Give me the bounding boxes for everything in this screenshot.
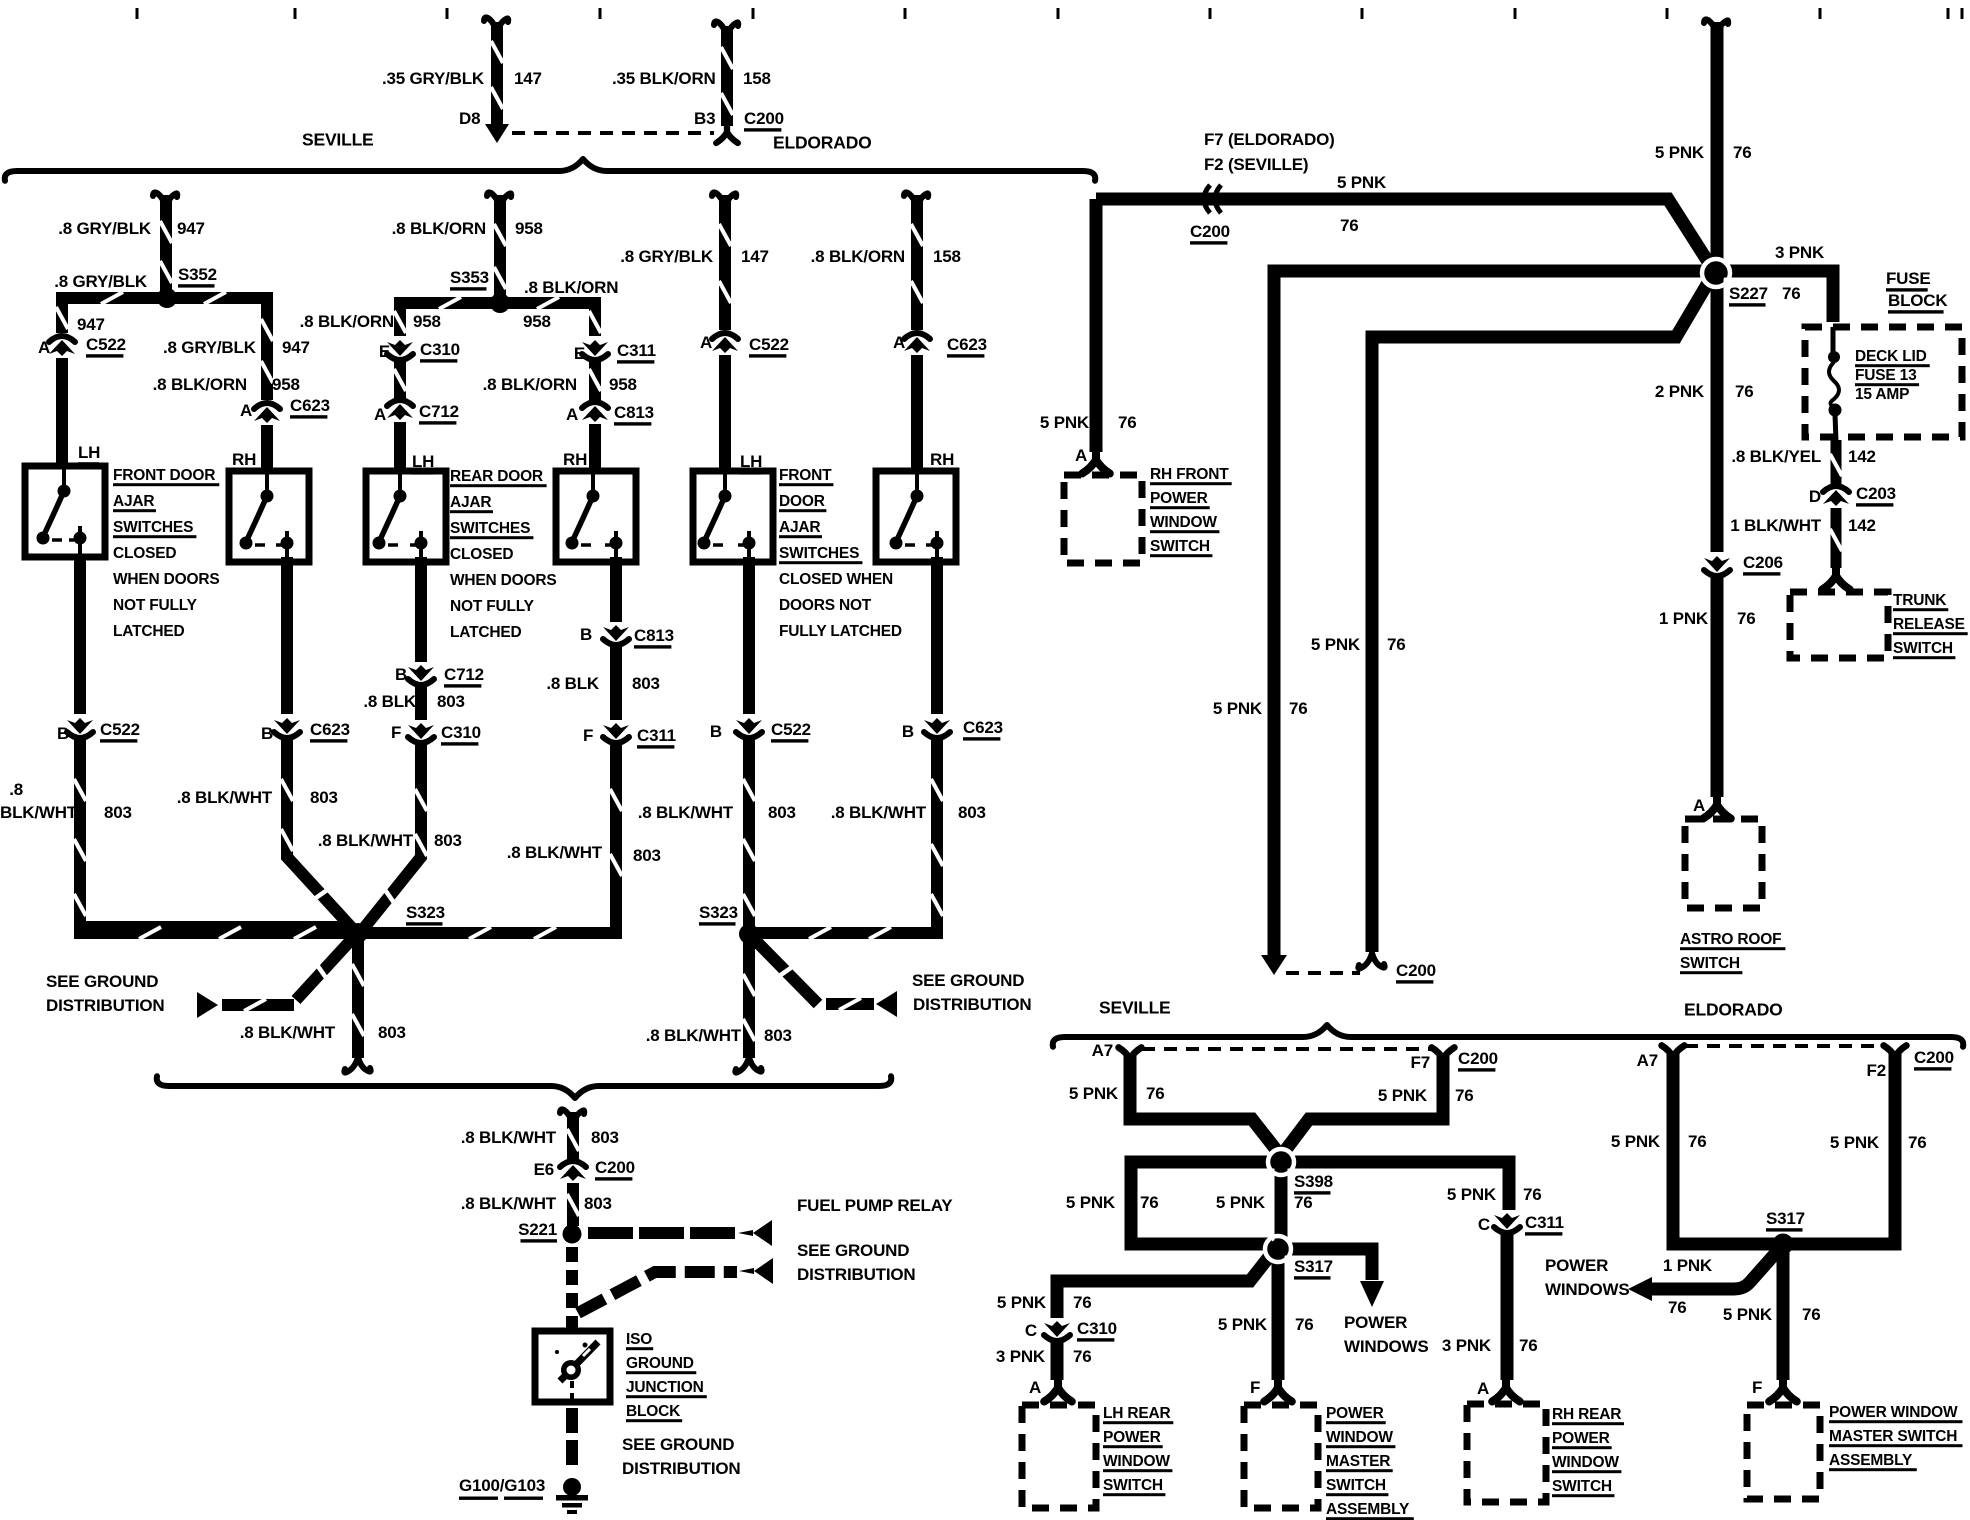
svg-text:JUNCTION: JUNCTION xyxy=(626,1379,704,1396)
svg-text:76: 76 xyxy=(1387,635,1406,654)
label DISTRIBUTION xyxy=(622,1459,740,1478)
svg-text:C200: C200 xyxy=(1190,222,1230,241)
switch RH rear door ajar (Seville) xyxy=(556,471,636,562)
svg-text:C310: C310 xyxy=(1077,1319,1117,1338)
svg-text:803: 803 xyxy=(584,1194,612,1213)
svg-text:947: 947 xyxy=(282,338,310,357)
wire 958 into S353 xyxy=(494,195,506,303)
svg-text:.8 BLK/WHT: .8 BLK/WHT xyxy=(461,1128,557,1147)
svg-text:FUSE 13: FUSE 13 xyxy=(1855,367,1917,384)
label 147 xyxy=(514,69,542,88)
label .8 BLK/WHT xyxy=(638,803,734,822)
title SEVILLE xyxy=(302,130,374,150)
svg-text:.8 BLK/WHT: .8 BLK/WHT xyxy=(646,1026,742,1045)
svg-text:D8: D8 xyxy=(459,109,480,128)
label .8 BLK/ORN xyxy=(811,247,905,266)
box RH REAR POWER WINDOW SWITCH xyxy=(1467,1404,1546,1502)
svg-text:SWITCH: SWITCH xyxy=(1326,1477,1386,1494)
svg-text:.8 BLK/WHT: .8 BLK/WHT xyxy=(831,803,927,822)
label 76 xyxy=(1387,635,1406,654)
svg-text:1 BLK/WHT: 1 BLK/WHT xyxy=(1730,516,1822,535)
svg-text:C712: C712 xyxy=(444,665,484,684)
wire C203-D to trunk release switch xyxy=(1830,508,1842,568)
svg-text:A: A xyxy=(1029,1378,1041,1397)
svg-text:B: B xyxy=(902,722,914,741)
wire S323 to lower brace (Eldorado) xyxy=(743,934,755,1058)
connector C623 cavity A xyxy=(254,403,280,423)
label BLOCK xyxy=(1888,291,1948,313)
fork terminal A7 xyxy=(1119,1048,1142,1069)
fork terminal wire 158 at C200 xyxy=(716,123,738,143)
svg-text:.8 BLK/ORN: .8 BLK/ORN xyxy=(524,278,618,297)
label S352 xyxy=(178,265,217,287)
svg-text:76: 76 xyxy=(1118,413,1137,432)
connector C311 cavity C xyxy=(1494,1213,1520,1233)
svg-text:76: 76 xyxy=(1289,699,1308,718)
label C623 xyxy=(310,720,350,742)
connector C310 cavity C xyxy=(1044,1321,1070,1341)
svg-text:SWITCH: SWITCH xyxy=(1680,955,1740,972)
svg-text:DOOR: DOOR xyxy=(779,493,825,510)
svg-text:FUEL PUMP RELAY: FUEL PUMP RELAY xyxy=(797,1196,953,1215)
label 76 xyxy=(1782,284,1801,303)
svg-text:LH: LH xyxy=(78,443,100,462)
fuse Deck Lid Fuse 13 xyxy=(1828,327,1842,442)
wire C522-B through S323 (Eldorado) xyxy=(743,738,755,934)
label B xyxy=(710,722,722,741)
svg-text:3 PNK: 3 PNK xyxy=(1775,243,1825,262)
svg-text:5 PNK: 5 PNK xyxy=(1378,1086,1428,1105)
label 5 PNK xyxy=(1447,1185,1497,1204)
label A7 xyxy=(1637,1051,1658,1070)
wire LH front switch to C522-B xyxy=(74,557,86,714)
svg-text:BLOCK: BLOCK xyxy=(1888,291,1948,310)
svg-text:LATCHED: LATCHED xyxy=(113,623,185,640)
wire S398 to C311 branch xyxy=(1281,1162,1509,1210)
label 76 xyxy=(1733,143,1752,162)
svg-text:F: F xyxy=(391,723,401,742)
label E6 cavity xyxy=(534,1160,554,1179)
svg-text:ELDORADO: ELDORADO xyxy=(1684,1000,1783,1020)
wire to RH front power window switch xyxy=(1090,199,1103,452)
svg-text:76: 76 xyxy=(1523,1185,1542,1204)
ground G100/G103 xyxy=(556,1478,588,1514)
wire LH front switch to C522-B (Eldorado) xyxy=(743,557,755,714)
dashed wire S221 branch to ground distribution xyxy=(578,1272,737,1313)
label F7 xyxy=(1411,1053,1430,1072)
fork terminal power window master switch assembly xyxy=(1264,1376,1292,1401)
hook terminal xyxy=(712,192,736,209)
label 5 PNK xyxy=(1040,413,1090,432)
wire S398 loop to S317 xyxy=(1131,1162,1281,1244)
label C522 xyxy=(86,335,126,357)
svg-text:.8 BLK/ORN: .8 BLK/ORN xyxy=(392,219,486,238)
label A xyxy=(1693,796,1705,815)
svg-text:F7: F7 xyxy=(1411,1053,1430,1072)
svg-text:F7 (ELDORADO): F7 (ELDORADO) xyxy=(1204,130,1335,149)
label .8 BLK/WHT xyxy=(177,788,273,807)
svg-text:2 PNK: 2 PNK xyxy=(1655,382,1705,401)
svg-text:FUSE: FUSE xyxy=(1886,269,1931,288)
connector C203 cavity D xyxy=(1823,486,1849,506)
svg-text:RH FRONT: RH FRONT xyxy=(1150,466,1229,483)
svg-text:F: F xyxy=(1250,1378,1260,1397)
label 803 xyxy=(591,1128,619,1147)
label C813 xyxy=(634,626,674,648)
label D8 cavity xyxy=(459,109,480,128)
svg-text:.8 BLK/WHT: .8 BLK/WHT xyxy=(638,803,734,822)
wire C712-B to C310-F xyxy=(415,686,427,720)
junction S323 (Eldorado) xyxy=(739,924,759,944)
label S323 xyxy=(699,903,738,925)
label 5 PNK xyxy=(1611,1132,1661,1151)
label 958 xyxy=(523,312,551,331)
label 76 xyxy=(1289,699,1308,718)
svg-text:76: 76 xyxy=(1140,1193,1159,1212)
svg-text:C200: C200 xyxy=(744,109,784,128)
svg-text:5 PNK: 5 PNK xyxy=(1213,699,1263,718)
svg-text:142: 142 xyxy=(1848,447,1876,466)
svg-text:C311: C311 xyxy=(1525,1213,1564,1232)
label C200 xyxy=(595,1158,635,1180)
hook terminal wire 147 xyxy=(484,17,508,34)
label 5 PNK xyxy=(1337,173,1387,192)
fork terminal F2 (Eldorado) xyxy=(1884,1046,1907,1067)
svg-text:803: 803 xyxy=(104,803,132,822)
wire S317 down to master switch assembly xyxy=(1272,1249,1285,1380)
label DECK LID FUSE 13 15 AMP xyxy=(1855,348,1930,403)
svg-text:E6: E6 xyxy=(534,1160,554,1179)
label 947 xyxy=(77,315,105,334)
wire LH rear switch to C712-B xyxy=(415,557,427,662)
wire C522-B to S323 xyxy=(74,738,352,939)
label F xyxy=(1752,1378,1762,1397)
box ASTRO ROOF SWITCH xyxy=(1685,819,1762,908)
svg-text:C623: C623 xyxy=(963,718,1003,737)
connector C522 cavity A xyxy=(49,336,75,356)
wire S227 down to C206 xyxy=(1711,273,1724,552)
title ELDORADO xyxy=(1684,1000,1783,1020)
label 803 xyxy=(437,692,465,711)
svg-text:76: 76 xyxy=(1073,1347,1092,1366)
label DISTRIBUTION xyxy=(797,1265,915,1284)
arrow POWER WINDOWS (Seville) xyxy=(1360,1281,1384,1307)
connector C522 cavity A (Eldorado) xyxy=(712,333,738,353)
svg-text:803: 803 xyxy=(764,1026,792,1045)
wire S317 down to master switch assembly (Eldorado) xyxy=(1777,1245,1790,1380)
svg-text:5 PNK: 5 PNK xyxy=(1655,143,1705,162)
svg-text:B3: B3 xyxy=(694,109,715,128)
svg-text:ASSEMBLY: ASSEMBLY xyxy=(1326,1501,1410,1518)
wire C200-E6 to S221 xyxy=(567,1183,579,1226)
svg-text:RH REAR: RH REAR xyxy=(1552,1406,1621,1423)
label SEE GROUND xyxy=(622,1435,734,1454)
label ASTRO ROOF SWITCH xyxy=(1680,931,1785,974)
label 5 PNK xyxy=(1218,1315,1268,1334)
hook terminal wire 947 xyxy=(153,192,177,209)
label G100/G103 xyxy=(459,1476,545,1500)
junction S221 xyxy=(563,1225,582,1244)
svg-text:.8 GRY/BLK: .8 GRY/BLK xyxy=(58,219,152,238)
wire S323 to lower brace xyxy=(352,933,364,1058)
svg-text:803: 803 xyxy=(378,1023,406,1042)
box LH REAR POWER WINDOW SWITCH xyxy=(1022,1405,1096,1508)
label F2 (SEVILLE) xyxy=(1204,155,1308,174)
svg-text:NOT FULLY: NOT FULLY xyxy=(450,598,535,615)
label 76 xyxy=(1073,1347,1092,1366)
svg-text:WINDOW: WINDOW xyxy=(1150,514,1217,531)
svg-text:5 PNK: 5 PNK xyxy=(1611,1132,1661,1151)
connector C200 cavity E6 xyxy=(560,1161,586,1181)
svg-text:C813: C813 xyxy=(634,626,674,645)
svg-text:WINDOW: WINDOW xyxy=(1326,1429,1393,1446)
svg-text:S221: S221 xyxy=(518,1220,557,1239)
svg-text:LH: LH xyxy=(412,452,434,471)
svg-text:DISTRIBUTION: DISTRIBUTION xyxy=(46,996,164,1015)
svg-text:SWITCH: SWITCH xyxy=(1552,1478,1612,1495)
label TRUNK RELEASE SWITCH xyxy=(1893,592,1968,659)
switch LH front door ajar (Eldorado) xyxy=(693,471,773,562)
svg-text:76: 76 xyxy=(1737,609,1756,628)
label 5 PNK xyxy=(997,1293,1047,1312)
svg-text:A: A xyxy=(38,338,50,357)
svg-text:RH: RH xyxy=(930,450,954,469)
label C xyxy=(1478,1215,1490,1234)
label 76 xyxy=(1668,1298,1687,1317)
label POWER WINDOW MASTER SWITCH ASSEMBLY xyxy=(1326,1405,1414,1520)
svg-text:NOT FULLY: NOT FULLY xyxy=(113,597,198,614)
dashed wire ISO block to G100/G103 xyxy=(566,1408,578,1472)
wire S317 to POWER WINDOWS (Eldorado) xyxy=(1652,1247,1781,1289)
svg-text:S227: S227 xyxy=(1729,284,1768,303)
svg-text:.35 GRY/BLK: .35 GRY/BLK xyxy=(382,69,485,88)
svg-text:B: B xyxy=(580,625,592,644)
label C623 xyxy=(963,718,1003,740)
connector C200 dashed interface (right) xyxy=(1286,971,1360,975)
svg-text:A: A xyxy=(374,405,386,424)
wire S323 to ground distribution (Eldorado) xyxy=(755,940,874,1010)
svg-text:5 PNK: 5 PNK xyxy=(1447,1185,1497,1204)
svg-text:LATCHED: LATCHED xyxy=(450,624,522,641)
label 803 xyxy=(584,1194,612,1213)
svg-text:803: 803 xyxy=(768,803,796,822)
box FUSE BLOCK xyxy=(1805,327,1962,437)
svg-text:803: 803 xyxy=(633,846,661,865)
svg-text:3 PNK: 3 PNK xyxy=(1442,1336,1492,1355)
wire C311-E to C813-A xyxy=(589,360,601,400)
label 958 xyxy=(413,312,441,331)
label .8 BLK/YEL xyxy=(1731,447,1821,466)
label 76 xyxy=(1140,1193,1159,1212)
svg-text:5 PNK: 5 PNK xyxy=(1069,1084,1119,1103)
svg-text:WHEN DOORS: WHEN DOORS xyxy=(113,571,220,588)
wire C712-A to LH rear switch xyxy=(394,422,406,471)
wire C206 to astro roof switch xyxy=(1711,577,1724,797)
hook terminal wire 158 xyxy=(714,21,738,38)
svg-text:C: C xyxy=(1025,1321,1037,1340)
svg-text:.8 BLK/ORN: .8 BLK/ORN xyxy=(153,375,247,394)
svg-text:SEE GROUND: SEE GROUND xyxy=(46,972,158,991)
svg-text:SWITCHES: SWITCHES xyxy=(450,520,530,537)
fork terminal LH rear power window switch xyxy=(1044,1376,1072,1401)
label .8 GRY/BLK xyxy=(58,219,152,238)
wire RH front switch to C623-B xyxy=(281,557,293,714)
svg-text:76: 76 xyxy=(1908,1133,1927,1152)
connector C200 dashed interface (Seville A7-F7) xyxy=(1142,1047,1432,1051)
label FRONT DOOR AJAR SWITCHES xyxy=(113,467,220,640)
label A xyxy=(1477,1379,1489,1398)
label 5 PNK xyxy=(1213,699,1263,718)
label C623 xyxy=(290,396,330,418)
label C522 xyxy=(749,335,789,357)
label 5 PNK xyxy=(1066,1193,1116,1212)
label B xyxy=(580,625,592,644)
label RH xyxy=(563,450,587,472)
svg-text:SWITCH: SWITCH xyxy=(1103,1477,1163,1494)
svg-text:958: 958 xyxy=(523,312,551,331)
label 142 xyxy=(1848,516,1876,535)
svg-text:REAR DOOR: REAR DOOR xyxy=(450,468,543,485)
label .8 BLK xyxy=(546,674,600,693)
svg-text:76: 76 xyxy=(1782,284,1801,303)
svg-text:E: E xyxy=(379,342,390,361)
svg-text:RH: RH xyxy=(232,450,256,469)
svg-text:1 PNK: 1 PNK xyxy=(1663,1256,1713,1275)
label LH xyxy=(412,452,434,474)
label 958 xyxy=(515,219,543,238)
svg-text:AJAR: AJAR xyxy=(113,493,154,510)
connector C712 cavity A xyxy=(387,400,413,420)
svg-text:POWER: POWER xyxy=(1552,1430,1610,1447)
svg-text:TRUNK: TRUNK xyxy=(1893,592,1947,609)
svg-text:C522: C522 xyxy=(749,335,789,354)
label FUEL PUMP RELAY xyxy=(797,1196,953,1215)
label POWER WINDOW MASTER SWITCH ASSEMBLY (Eldorado) xyxy=(1829,1404,1963,1471)
connector C712 cavity B xyxy=(408,665,434,685)
svg-text:158: 158 xyxy=(933,247,961,266)
label 147 xyxy=(741,247,769,266)
arrow to SEE GROUND DISTRIBUTION (Seville) xyxy=(197,992,218,1018)
svg-text:76: 76 xyxy=(1294,1193,1313,1212)
svg-text:947: 947 xyxy=(77,315,105,334)
svg-text:WINDOWS: WINDOWS xyxy=(1344,1337,1429,1356)
svg-text:76: 76 xyxy=(1688,1132,1707,1151)
svg-text:S317: S317 xyxy=(1294,1257,1333,1276)
label BLK/WHT xyxy=(0,803,78,822)
svg-text:G100/G103: G100/G103 xyxy=(459,1476,545,1495)
wire S317 to POWER WINDOWS arrow xyxy=(1278,1249,1372,1280)
svg-text:.8 BLK/ORN: .8 BLK/ORN xyxy=(300,312,394,331)
svg-text:A7: A7 xyxy=(1637,1051,1658,1070)
label A xyxy=(893,333,905,352)
label SEE GROUND xyxy=(46,972,158,991)
svg-text:76: 76 xyxy=(1519,1336,1538,1355)
label 803 xyxy=(958,803,986,822)
svg-text:B: B xyxy=(710,722,722,741)
wire A7 to S398 xyxy=(1130,1053,1281,1156)
svg-text:RH: RH xyxy=(563,450,587,469)
svg-text:C203: C203 xyxy=(1856,484,1896,503)
svg-text:C310: C310 xyxy=(441,723,481,742)
label S317 xyxy=(1294,1257,1333,1279)
label A xyxy=(566,405,578,424)
wire A7 to S317 (Eldorado) xyxy=(1673,1051,1777,1244)
connector C623 cavity B (Eldorado) xyxy=(924,718,950,738)
svg-text:SWITCHES: SWITCHES xyxy=(779,545,859,562)
svg-text:958: 958 xyxy=(413,312,441,331)
wire S317 to C310 branch xyxy=(1057,1253,1272,1318)
svg-text:LH REAR: LH REAR xyxy=(1103,1405,1171,1422)
wire C623-B to S323 (Eldorado) xyxy=(755,738,943,939)
label 803 xyxy=(378,1023,406,1042)
svg-text:ELDORADO: ELDORADO xyxy=(773,133,872,153)
label 142 xyxy=(1848,447,1876,466)
label C310 xyxy=(441,723,481,745)
wire C522-A to LH front switch xyxy=(56,358,68,466)
label 76 xyxy=(1073,1293,1092,1312)
label 947 xyxy=(177,219,205,238)
box POWER WINDOW MASTER SWITCH ASSEMBLY (Eldorado) xyxy=(1747,1405,1820,1499)
svg-text:A: A xyxy=(1693,796,1705,815)
wire S353 to C310-E (LH rear) xyxy=(394,297,500,336)
svg-text:.8 BLK: .8 BLK xyxy=(363,692,417,711)
label 1 PNK xyxy=(1663,1256,1713,1275)
svg-text:DISTRIBUTION: DISTRIBUTION xyxy=(622,1459,740,1478)
label C712 xyxy=(444,665,484,687)
hook terminal wire 958 xyxy=(487,192,511,209)
label C200 xyxy=(1914,1048,1954,1070)
svg-text:S323: S323 xyxy=(406,903,445,922)
svg-text:5 PNK: 5 PNK xyxy=(1216,1193,1266,1212)
connector C311 cavity E xyxy=(582,340,608,360)
svg-text:76: 76 xyxy=(1073,1293,1092,1312)
wire C623-B to S323 xyxy=(281,738,352,928)
label .8 BLK/WHT xyxy=(461,1194,557,1213)
wire C311-F to S323 xyxy=(358,744,622,939)
svg-text:C311: C311 xyxy=(637,726,676,745)
label SEE GROUND xyxy=(912,971,1024,990)
label .8 GRY/BLK xyxy=(163,338,257,357)
label REAR DOOR AJAR SWITCHES xyxy=(450,468,557,641)
wire C623-A to RH front switch (Eldorado) xyxy=(911,355,923,471)
wire RH front switch to C623-B (Eldorado) xyxy=(931,557,943,714)
box TRUNK RELEASE SWITCH xyxy=(1790,592,1888,658)
svg-text:803: 803 xyxy=(434,831,462,850)
svg-text:S323: S323 xyxy=(699,903,738,922)
label A xyxy=(240,401,252,420)
wire S353 to C311-E (RH rear) xyxy=(500,297,601,336)
svg-text:.8 GRY/BLK: .8 GRY/BLK xyxy=(620,247,714,266)
wire fuse to C203-D xyxy=(1830,440,1842,484)
fork terminal RH rear power window switch xyxy=(1492,1376,1520,1401)
label 5 PNK xyxy=(1069,1084,1119,1103)
label 76 xyxy=(1519,1336,1538,1355)
svg-text:76: 76 xyxy=(1340,216,1359,235)
svg-text:POWER: POWER xyxy=(1545,1256,1608,1275)
svg-text:DOORS NOT: DOORS NOT xyxy=(779,597,872,614)
svg-text:76: 76 xyxy=(1735,382,1754,401)
label LH xyxy=(78,443,100,465)
label 76 xyxy=(1294,1193,1313,1212)
label C712 xyxy=(419,402,459,424)
label 1 BLK/WHT xyxy=(1730,516,1822,535)
svg-text:S398: S398 xyxy=(1294,1172,1333,1191)
fork terminal power window master switch assembly (Eldorado) xyxy=(1769,1376,1797,1401)
svg-text:POWER: POWER xyxy=(1103,1429,1161,1446)
label E xyxy=(379,342,390,361)
svg-text:S352: S352 xyxy=(178,265,217,284)
svg-text:A7: A7 xyxy=(1092,1041,1113,1060)
